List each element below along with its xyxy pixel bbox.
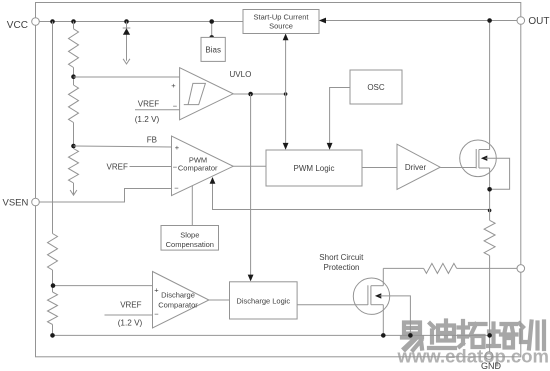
svg-text:Compensation: Compensation [166, 240, 214, 249]
comparator U3 Discharge [153, 272, 209, 329]
wire Bias drop [211, 22, 213, 38]
junction dot UVLO out / discharge riser [248, 92, 253, 97]
resistor R5 (chain2 bottom) [69, 149, 79, 184]
comparator U2 PWM [172, 136, 234, 196]
junction dot Q2 source [381, 333, 386, 338]
wire chain2 top stub [73, 22, 75, 29]
svg-text:VSEN: VSEN [3, 198, 29, 209]
pin GND [485, 352, 493, 360]
wire OUT rail (Start-Up box to pin OUT) [326, 20, 517, 22]
svg-text:Slope: Slope [180, 230, 199, 239]
wire discharge + input [53, 285, 153, 287]
block PWM Logic [266, 150, 362, 186]
wire GND drop [489, 335, 491, 352]
junction dot chain2/FB tap [71, 144, 76, 149]
svg-text:−: − [174, 184, 179, 193]
resistor R1 (chain1 upper) [48, 234, 58, 271]
wire discharge - input (VREF) [105, 314, 153, 316]
wire chain1 bottom segment [52, 325, 54, 336]
wire VCC rail (pin VCC to Start-Up box) [39, 21, 243, 23]
junction dot UVLO out / startup riser [284, 92, 288, 96]
junction dot bottom-left [50, 333, 55, 338]
diode D1 branch wire [126, 22, 128, 61]
svg-text:OSC: OSC [367, 83, 385, 92]
svg-text:Short Circuit: Short Circuit [319, 253, 364, 262]
block Slope Compensation [161, 226, 219, 251]
junction dot VCC/diode branch [124, 19, 129, 24]
wire UVLO output [233, 93, 285, 95]
wire chain1 upper segment [52, 22, 54, 234]
svg-text:Start-Up Current: Start-Up Current [253, 13, 309, 22]
open arrowhead chain2 end [70, 190, 77, 195]
resistor R4 (chain2 middle) [69, 85, 79, 123]
transistor Q1 (upper NMOS) [460, 140, 497, 177]
svg-text:VCC: VCC [7, 20, 28, 31]
svg-text:FB: FB [147, 135, 157, 144]
junction dot OUT node [487, 18, 492, 23]
wire slope comp drop [191, 186, 193, 226]
junction dot Q2 body [408, 333, 413, 338]
svg-text:−: − [173, 102, 178, 111]
hysteresis symbol inside UVLO [184, 83, 206, 104]
resistor R2 (chain1 lower) [48, 292, 58, 325]
junction dot VCC/Bias [209, 19, 214, 24]
svg-text:Discharge Logic: Discharge Logic [236, 296, 290, 305]
wire PWM Logic output [362, 167, 397, 169]
open arrowhead diode branch end [123, 59, 130, 64]
wire PWM comparator output [233, 165, 266, 167]
junction dot chain2/UVLO tap [71, 74, 76, 79]
wire UVLO + input (from divider tap) [74, 76, 180, 78]
svg-text:Discharge: Discharge [161, 290, 195, 299]
svg-text:VREF: VREF [107, 163, 128, 172]
junction dot sense tap [488, 209, 492, 213]
arrowhead down into PWM Logic top (left) [283, 143, 289, 150]
svg-text:(1.2 V): (1.2 V) [118, 319, 143, 328]
block Start-Up Current Source [243, 10, 319, 34]
wire Q2 gate from Discharge Logic [297, 304, 368, 306]
svg-text:www.edatop.com: www.edatop.com [397, 345, 549, 366]
pin VCC [32, 18, 40, 26]
svg-text:Source: Source [269, 22, 293, 31]
diode D1 (filled up triangle + bar) [123, 28, 130, 35]
svg-text:Driver: Driver [405, 163, 427, 172]
wire bottom rail [53, 334, 490, 336]
resistor R6 (sense, vertical) [484, 220, 495, 255]
svg-text:Comparator: Comparator [178, 164, 218, 173]
svg-text:(1.2 V): (1.2 V) [135, 115, 160, 124]
svg-text:+: + [171, 81, 176, 90]
wire VSEN to PWM lower input [39, 189, 171, 203]
block Bias [201, 37, 225, 61]
block OSC [350, 70, 402, 104]
svg-text:+: + [154, 286, 159, 295]
svg-text:UVLO: UVLO [230, 70, 252, 79]
block Discharge Logic [230, 282, 298, 319]
wire discharge comparator output [209, 299, 230, 301]
junction dot VCC/chain1 [50, 19, 55, 24]
wire R6 to bottom rail [489, 256, 491, 336]
arrowhead up onto PWM comparator hypotenuse [210, 177, 216, 184]
svg-text:PWM Logic: PWM Logic [294, 164, 335, 173]
junction dot Bias box top [209, 35, 214, 40]
svg-text:Comparator: Comparator [158, 300, 198, 309]
junction dot Q1 source/body [487, 187, 492, 192]
pin VSEN [32, 198, 40, 206]
pin unnamed (right, sense) [517, 265, 525, 273]
wire chain2 seg a [73, 68, 75, 86]
wire Driver to Q1 gate [440, 167, 476, 169]
watermark 'yi di tuo pei xun' (gray CJK strokes) [404, 323, 420, 334]
wire Q2 drain rail [383, 267, 423, 269]
wire chain2 seg b [73, 123, 75, 149]
wire riser to Discharge Logic (x=250.6) [250, 94, 252, 276]
wire OSC output to PWM Logic [330, 88, 350, 145]
svg-text:VREF: VREF [120, 300, 141, 309]
wire current-sense feedback to PWM comparator [213, 183, 490, 210]
wire riser to Start-Up and PWM Logic (x=285.6) [285, 39, 287, 144]
resistor R7 (horizontal) [424, 263, 457, 273]
amplifier Driver [397, 144, 440, 189]
comparator U1 UVLO [180, 68, 234, 120]
wire PWM - VREF [130, 166, 172, 168]
arrowhead up into Start-Up bottom [283, 34, 289, 41]
wire chain2 tail [73, 183, 75, 195]
arrowhead into Start-Up right side [319, 18, 326, 24]
svg-text:GND: GND [481, 361, 502, 371]
pin OUT [517, 17, 525, 25]
svg-text:VREF: VREF [138, 100, 159, 109]
svg-text:Bias: Bias [205, 45, 221, 54]
wire chain1 mid segment [52, 270, 54, 292]
wire UVLO - input (VREF 1.2V) [135, 109, 180, 111]
junction dot bottom-right (GND) [487, 333, 492, 338]
svg-text:OUT: OUT [528, 16, 549, 27]
wire OUT junction drop to Q1 drain [489, 21, 491, 150]
svg-text:−: − [154, 310, 159, 319]
wire R7 to pin [457, 267, 517, 269]
junction dot VCC/chain2 [71, 19, 76, 24]
svg-text:Protection: Protection [323, 263, 359, 272]
arrowhead down into PWM Logic top (right) [327, 143, 333, 150]
wire FB (divider tap to PWM +) [74, 146, 172, 147]
arrowhead down into Discharge Logic top [248, 275, 254, 282]
transistor Q2 (lower NMOS) [353, 278, 389, 314]
wire Q1 source down [489, 168, 491, 220]
junction dot divider tap (discharge) [51, 283, 56, 288]
svg-text:+: + [175, 143, 180, 152]
resistor R3 (chain2 top) [69, 29, 79, 68]
